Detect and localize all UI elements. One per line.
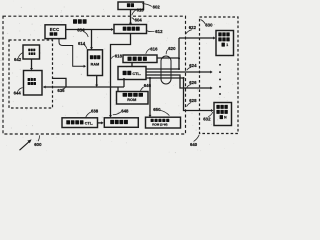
svg-text:ROM: ROM: [127, 98, 136, 102]
svg-text:600: 600: [34, 142, 42, 147]
svg-text:1: 1: [226, 43, 228, 47]
svg-text:602: 602: [153, 4, 161, 9]
svg-text:640: 640: [190, 142, 198, 147]
svg-text:612: 612: [155, 29, 163, 34]
svg-text:642: 642: [14, 57, 22, 62]
svg-text:ECC: ECC: [50, 27, 60, 32]
svg-text:620: 620: [168, 46, 176, 51]
svg-text:644: 644: [14, 91, 22, 96]
svg-text:632: 632: [203, 116, 211, 121]
svg-text:638: 638: [91, 108, 99, 113]
svg-text:ROM (2-W): ROM (2-W): [152, 123, 167, 127]
svg-text:646: 646: [144, 83, 152, 88]
svg-text:CTL.: CTL.: [132, 71, 141, 76]
svg-text:CTL.: CTL.: [85, 122, 93, 126]
svg-text:N: N: [224, 116, 227, 120]
svg-text:630: 630: [205, 22, 213, 27]
svg-text:616: 616: [150, 46, 158, 51]
svg-text:604: 604: [135, 18, 143, 23]
svg-text:610: 610: [137, 7, 145, 12]
svg-text:RAM: RAM: [91, 62, 100, 66]
svg-text:622: 622: [189, 25, 197, 30]
svg-text:628: 628: [189, 98, 197, 103]
svg-text:618: 618: [115, 53, 123, 58]
svg-text:648: 648: [121, 108, 129, 113]
